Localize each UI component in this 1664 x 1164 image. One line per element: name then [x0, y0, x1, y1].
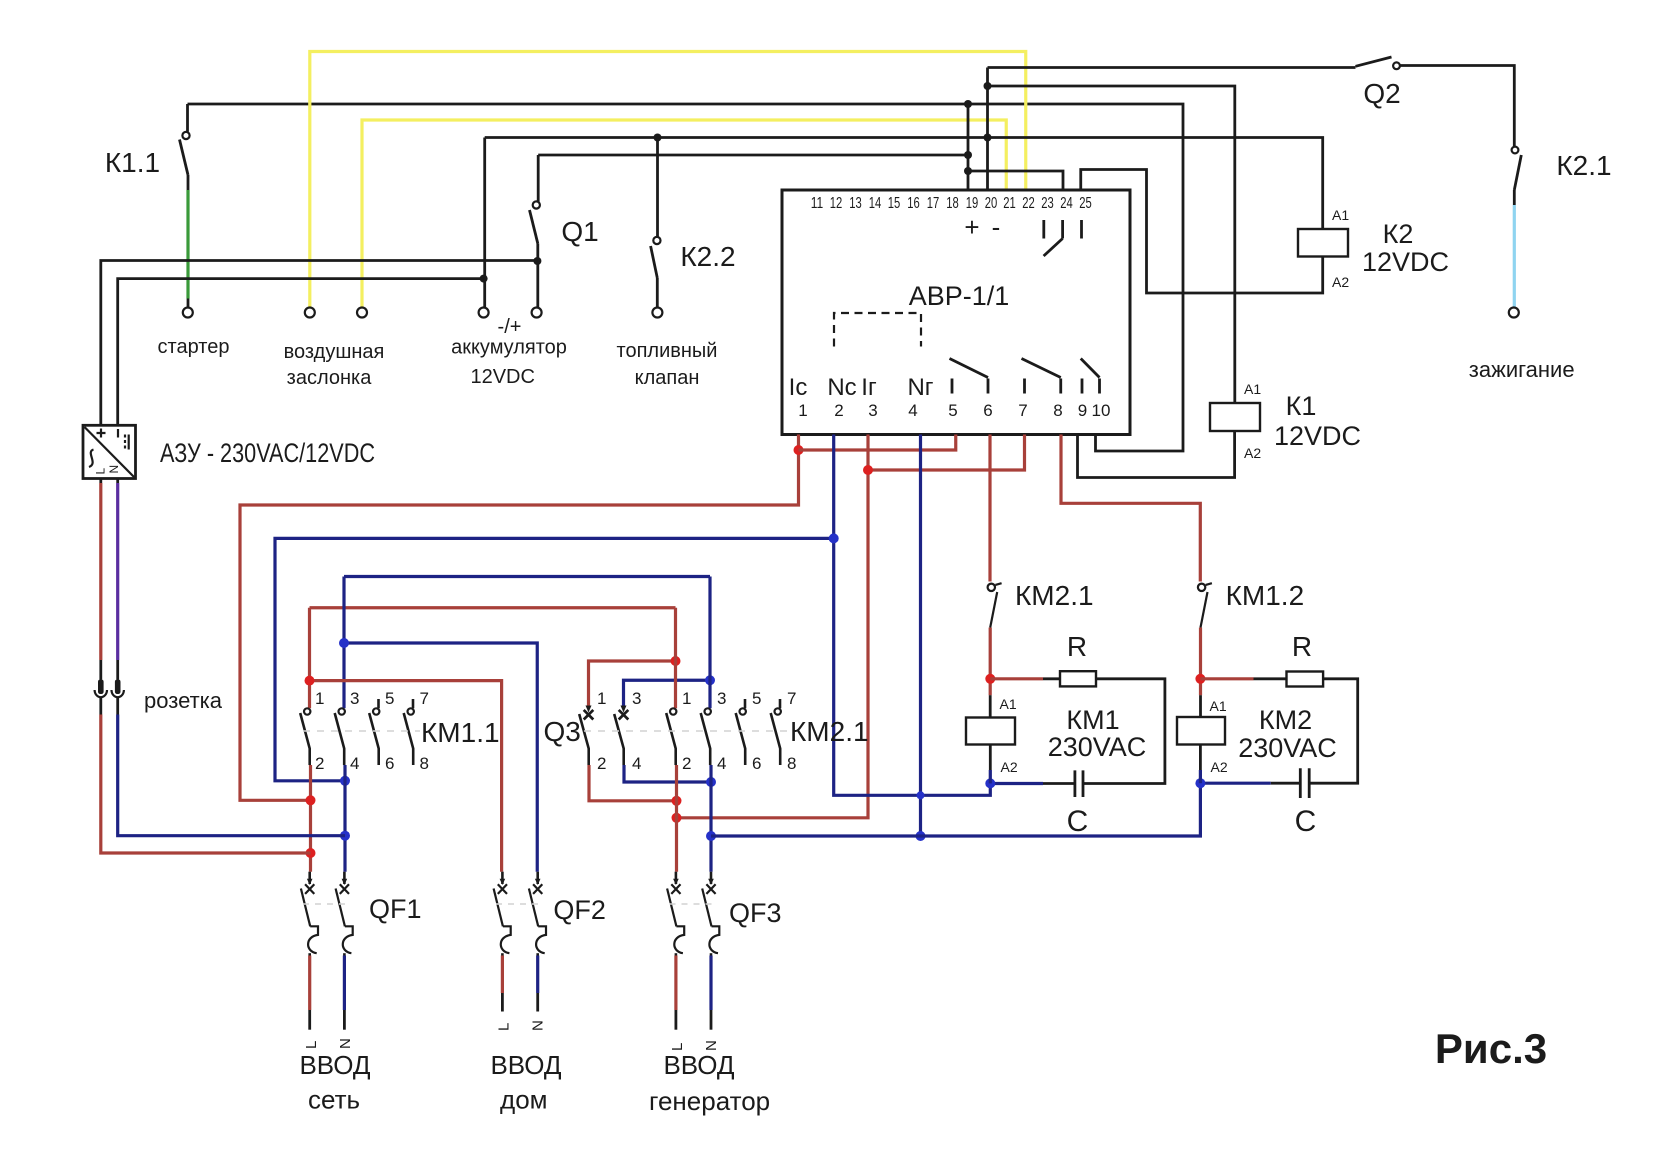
wire plug L to L bus — [99, 698, 102, 715]
svg-text:Q2: Q2 — [1363, 78, 1400, 109]
wire N link bus KM1.1 to KM2.1 — [344, 575, 710, 578]
svg-text:A1: A1 — [1210, 698, 1227, 714]
wire Q2 feed line — [988, 66, 1356, 69]
svg-text:КМ2.1: КМ2.1 — [790, 716, 869, 747]
svg-text:6: 6 — [983, 401, 992, 420]
breaker QF3 pole L — [667, 872, 684, 956]
node 20 / battery minus bus — [984, 134, 992, 142]
switch Q2 — [1356, 57, 1392, 66]
svg-text:Nс: Nс — [827, 374, 856, 401]
svg-text:L: L — [303, 1041, 320, 1049]
breaker QF2 pole L — [494, 872, 511, 956]
wire yellow air damper 2 to terminal 21 — [362, 120, 1006, 307]
wire AZU to battery plus line — [101, 261, 538, 426]
wire KM2.1 pole1 top — [674, 608, 677, 709]
svg-text:4: 4 — [908, 401, 917, 420]
terminal air damper 1 — [305, 308, 315, 318]
capacitor C KM2 — [1300, 768, 1309, 798]
svg-text:A2: A2 — [1001, 759, 1018, 775]
wire KM2.1 pole3 top — [708, 577, 711, 709]
contact 23-24 inside box — [1044, 220, 1063, 256]
node 19 / +12V bus — [964, 100, 972, 108]
svg-text:12VDC: 12VDC — [470, 366, 534, 388]
node Nc / N bus — [829, 533, 839, 543]
node battery plus / AZU tap — [533, 257, 541, 265]
svg-text:ВВОД: ВВОД — [663, 1050, 734, 1080]
bar terminal 25 inside box — [1080, 220, 1083, 239]
terminal fuel valve — [652, 308, 662, 318]
svg-text:N: N — [107, 465, 121, 474]
svg-text:6: 6 — [752, 754, 761, 773]
wire KM1.1 pole1 top — [308, 608, 311, 709]
switch K2.1 — [1512, 147, 1519, 154]
wire terminal 7 — [868, 435, 1025, 471]
wire KM2.1 pole3 lower to QF3 — [709, 765, 712, 872]
linkage QF1 dashed — [303, 903, 350, 905]
node pole1 / rozetka L — [306, 848, 316, 858]
svg-text:1: 1 — [597, 689, 606, 708]
svg-text:15: 15 — [888, 195, 901, 212]
svg-text:10: 10 — [1092, 401, 1111, 420]
breaker QF3 pole N — [702, 872, 719, 956]
wire terminal 19 drop — [967, 104, 970, 189]
svg-text:19: 19 — [966, 195, 979, 212]
wire KM2 A2 stub — [1199, 745, 1202, 771]
wire L bus from terminal 1 to KM1.1 — [240, 435, 799, 801]
wire terminal 20 drop — [986, 68, 989, 190]
wire AZU L output — [99, 479, 102, 484]
node A2 KM1 — [985, 778, 995, 788]
svg-text:КМ1: КМ1 — [1066, 705, 1119, 735]
svg-text:-/+: -/+ — [498, 316, 522, 338]
svg-text:дом: дом — [500, 1085, 548, 1115]
node Q3 L tap — [671, 656, 681, 666]
node terminal 3 / 7 — [863, 465, 873, 475]
svg-text:6: 6 — [385, 754, 394, 773]
svg-text:1: 1 — [682, 689, 691, 708]
dashed block inside box — [834, 313, 921, 347]
svg-text:К2: К2 — [1383, 219, 1414, 249]
svg-text:7: 7 — [1018, 401, 1027, 420]
wire AZU N output — [116, 479, 119, 484]
breaker QF1 pole L — [301, 872, 318, 956]
wire KM2.1 pole1 lower to QF3 — [675, 765, 678, 872]
resistor R KM1 — [990, 677, 1043, 680]
switch Q3 pole 3-4 — [614, 706, 628, 766]
wire Q3 pole2 out — [589, 765, 677, 801]
svg-text:КМ2.1: КМ2.1 — [1015, 580, 1094, 611]
linkage QF2 dashed — [496, 903, 543, 905]
wire KM1 A2 stub — [989, 745, 992, 771]
node R tap KM1 — [985, 674, 995, 684]
node K2.2 tap — [654, 134, 662, 142]
wire terminal 4 Nг drop — [919, 435, 922, 837]
node R tap KM2 — [1195, 674, 1205, 684]
wire QF2 N feed — [344, 643, 537, 872]
svg-text:230VAC: 230VAC — [1238, 733, 1337, 763]
svg-text:АВР-1/1: АВР-1/1 — [909, 281, 1010, 311]
svg-text:2: 2 — [834, 401, 843, 420]
breaker QF2 pole N — [529, 872, 546, 956]
switch K1.1 — [182, 132, 189, 139]
svg-text:9: 9 — [1078, 401, 1087, 420]
node Q3 pole4 / KM2.1 pole3 — [706, 777, 716, 787]
wire plug N to rozetka N line — [116, 698, 119, 715]
svg-text:Q1: Q1 — [561, 216, 598, 247]
node pole3 / rozetka N — [340, 831, 350, 841]
node A2 KM2 — [1195, 778, 1205, 788]
svg-text:R: R — [1292, 631, 1312, 662]
node 19 / terminal 24 branch — [964, 167, 972, 175]
svg-text:2: 2 — [315, 754, 324, 773]
contactor coil KM1 — [966, 718, 1015, 745]
svg-text:21: 21 — [1003, 195, 1016, 212]
terminal ignition — [1509, 308, 1519, 318]
svg-text:Iг: Iг — [861, 374, 877, 401]
wire yellow air damper 1 to terminal 22 — [310, 52, 1026, 308]
svg-text:8: 8 — [420, 754, 429, 773]
contact 5-6 inside box — [950, 359, 989, 394]
wire K2.1 to ignition — [1513, 190, 1516, 205]
wire KM1.1 pole3 lower — [343, 765, 346, 872]
wire Q1 to battery plus — [536, 244, 539, 308]
svg-text:8: 8 — [787, 754, 796, 773]
node QF2 N tap — [339, 638, 349, 648]
wire QF2 L feed — [310, 681, 502, 872]
svg-text:11: 11 — [811, 195, 824, 212]
svg-text:воздушная: воздушная — [284, 341, 385, 363]
svg-text:7: 7 — [420, 689, 429, 708]
node pole3 / C bus — [706, 831, 716, 841]
node KM2.1 pole 1 feed — [672, 813, 682, 823]
breaker QF1 pole N — [336, 872, 353, 956]
svg-text:стартер: стартер — [158, 336, 230, 358]
wire Q1 feed — [538, 154, 968, 157]
svg-text:1: 1 — [315, 689, 324, 708]
svg-text:-: - — [992, 212, 1001, 242]
svg-text:1: 1 — [798, 401, 807, 420]
svg-text:3: 3 — [717, 689, 726, 708]
aux contact KM1.2 — [1198, 583, 1212, 627]
svg-text:2: 2 — [682, 754, 691, 773]
contactor coil KM2 — [1177, 717, 1225, 745]
svg-text:клапан: клапан — [635, 367, 700, 389]
contactor KM1.1 pole 5 contact — [369, 699, 379, 765]
svg-text:12VDC: 12VDC — [1362, 247, 1449, 277]
svg-text:розетка: розетка — [144, 688, 223, 713]
svg-text:13: 13 — [849, 195, 862, 212]
terminal battery minus — [479, 308, 489, 318]
wire battery minus bus to K2 coil A1 — [485, 138, 1323, 230]
svg-text:A2: A2 — [1244, 445, 1261, 461]
wire terminal 5 — [799, 435, 956, 451]
node KM1.1 pole 3 lower / N bus — [340, 776, 350, 786]
wire KM1.1 pole1 lower — [309, 765, 312, 872]
wire N bus to KM1.1 pole 3 — [275, 538, 834, 780]
svg-text:+: + — [964, 212, 979, 242]
ABP-1/1 box — [782, 190, 1130, 435]
svg-text:18: 18 — [946, 195, 959, 212]
node Q3 N tap — [705, 675, 715, 685]
wire minus line to K1 coil A1 — [988, 86, 1235, 403]
svg-text:КМ1.1: КМ1.1 — [421, 717, 500, 748]
svg-text:ВВОД: ВВОД — [299, 1050, 370, 1080]
svg-text:Nг: Nг — [907, 374, 933, 401]
svg-text:24: 24 — [1060, 195, 1073, 212]
capacitor C KM1 — [1075, 770, 1083, 797]
node terminal 1 / 5 — [794, 445, 804, 455]
svg-text:5: 5 — [385, 689, 394, 708]
svg-text:заслонка: заслонка — [287, 367, 373, 389]
node 20 / K1-A1 line — [984, 82, 992, 90]
C bus to KM2 coil A2 — [711, 783, 1200, 836]
svg-text:зажигание: зажигание — [1469, 357, 1575, 382]
contactor KM1.1 pole 3 contact — [335, 708, 345, 765]
svg-text:230VAC: 230VAC — [1048, 732, 1147, 762]
svg-text:QF1: QF1 — [369, 894, 422, 924]
contactor KM2.1 pole 3 contact — [701, 708, 711, 765]
svg-text:Iс: Iс — [789, 374, 808, 401]
svg-text:К1.1: К1.1 — [105, 147, 160, 178]
switch K2.2 — [653, 237, 660, 244]
resistor R KM2 — [1200, 677, 1253, 680]
svg-text:К2.1: К2.1 — [1556, 150, 1611, 181]
svg-text:топливный: топливный — [617, 340, 718, 362]
svg-text:К1: К1 — [1286, 391, 1317, 421]
svg-text:C: C — [1295, 805, 1317, 838]
contactor KM2.1 pole 7 contact — [771, 699, 781, 765]
linkage KM1.1 dashed — [303, 730, 420, 732]
svg-text:4: 4 — [717, 754, 726, 773]
svg-text:L: L — [496, 1023, 513, 1031]
svg-text:3: 3 — [632, 689, 641, 708]
svg-text:3: 3 — [868, 401, 877, 420]
wire Q2 to K2.1 — [1400, 66, 1514, 147]
aux contact KM2.1 with terminal 6 wire — [988, 435, 991, 582]
node QF2 L tap — [305, 676, 315, 686]
wire battery minus drop — [483, 138, 486, 308]
svg-text:4: 4 — [632, 754, 641, 773]
svg-text:КМ1.2: КМ1.2 — [1226, 580, 1305, 611]
svg-text:8: 8 — [1053, 401, 1062, 420]
wire K2.2 drop — [656, 138, 659, 237]
svg-text:2: 2 — [597, 754, 606, 773]
svg-text:АЗУ - 230VAC/12VDC: АЗУ - 230VAC/12VDC — [160, 438, 375, 468]
wire L link bus KM1.1 to KM2.1 — [310, 606, 676, 609]
plug rozetka N — [115, 680, 121, 695]
relay coil K2 — [1298, 229, 1348, 257]
wire Q3 pole3 branch — [624, 680, 711, 706]
wire Q3 pole1 branch — [589, 661, 676, 706]
wire branch to terminal 24 — [968, 171, 1063, 189]
wire K2.2 to fuel valve — [656, 278, 659, 307]
svg-text:аккумулятор: аккумулятор — [451, 337, 567, 359]
node battery minus / AZU tap — [480, 275, 488, 283]
svg-text:20: 20 — [985, 195, 998, 212]
contactor KM1.1 pole 1 contact — [300, 708, 310, 765]
contactor KM1.1 pole 7 contact — [404, 699, 414, 765]
svg-text:12: 12 — [830, 195, 843, 212]
wire K1.1 to starter — [187, 175, 190, 190]
svg-text:QF3: QF3 — [729, 898, 782, 928]
svg-text:22: 22 — [1022, 195, 1035, 212]
contactor KM2.1 pole 5 contact — [736, 699, 746, 765]
svg-text:A1: A1 — [1332, 207, 1349, 223]
svg-text:R: R — [1067, 631, 1087, 662]
wire terminal 25 to K2 coil A2 — [1081, 170, 1323, 294]
svg-text:17: 17 — [927, 195, 940, 212]
wire K1.1 top drop — [186, 104, 189, 132]
svg-text:ВВОД: ВВОД — [490, 1050, 561, 1080]
node Q3 pole2 / KM2.1 pole1 — [672, 796, 682, 806]
svg-text:A1: A1 — [1000, 696, 1017, 712]
relay coil K1 — [1210, 403, 1260, 431]
svg-text:N: N — [530, 1020, 547, 1031]
svg-text:сеть: сеть — [308, 1085, 360, 1115]
svg-text:A1: A1 — [1244, 381, 1261, 397]
terminal starter — [183, 308, 193, 318]
wire terminal 3 Iг to KM2.1 pole 1 — [677, 435, 869, 818]
wire KM1.1 pole3 top — [342, 577, 345, 709]
svg-text:C: C — [1067, 805, 1089, 838]
svg-text:23: 23 — [1041, 195, 1054, 212]
node Nг / C bus — [916, 831, 926, 841]
svg-text:4: 4 — [350, 754, 359, 773]
wire +12V bus from K1.1 to terminal 10 — [188, 104, 1184, 451]
terminal air damper 2 — [357, 308, 367, 318]
svg-text:L: L — [94, 468, 108, 475]
linkage QF3 dashed — [670, 903, 717, 905]
svg-text:16: 16 — [907, 195, 920, 212]
svg-text:К2.2: К2.2 — [680, 241, 735, 272]
switch Q1 — [537, 155, 540, 202]
svg-text:QF2: QF2 — [553, 895, 606, 925]
svg-text:Рис.3: Рис.3 — [1435, 1025, 1547, 1072]
terminal battery plus — [532, 308, 542, 318]
wire terminal 2 Nc to KM1 coil A2 — [834, 435, 991, 796]
wire Q3 pole4 out — [624, 765, 711, 782]
svg-text:25: 25 — [1079, 195, 1092, 212]
node Nг / Nc line — [917, 791, 925, 799]
PSU AZU box — [83, 425, 136, 478]
contactor KM2.1 pole 1 contact — [666, 708, 676, 765]
contact 9-10 inside box — [1081, 359, 1100, 394]
svg-text:N: N — [337, 1038, 354, 1049]
linkage Q3-KM2.1 dashed — [584, 730, 788, 732]
node pole1 / L bus — [306, 795, 316, 805]
svg-text:A2: A2 — [1332, 274, 1349, 290]
wire terminal 8 to KM1.2 — [1061, 435, 1200, 582]
svg-text:генератор: генератор — [649, 1086, 770, 1116]
wire AZU to battery minus line — [118, 279, 484, 426]
switch Q3 pole 1-2 — [579, 706, 593, 766]
svg-text:5: 5 — [948, 401, 957, 420]
svg-text:Q3: Q3 — [544, 716, 581, 747]
svg-text:3: 3 — [350, 689, 359, 708]
wire terminal 9 to K1 coil A2 — [1078, 431, 1235, 478]
svg-text:14: 14 — [869, 195, 882, 212]
svg-text:5: 5 — [752, 689, 761, 708]
plug rozetka L — [98, 680, 104, 695]
svg-text:7: 7 — [787, 689, 796, 708]
contact 7-8 inside box — [1022, 359, 1061, 394]
svg-text:12VDC: 12VDC — [1274, 421, 1361, 451]
svg-text:A2: A2 — [1211, 759, 1228, 775]
svg-text:КМ2: КМ2 — [1259, 705, 1312, 735]
node 19 / Q1 line — [964, 151, 972, 159]
